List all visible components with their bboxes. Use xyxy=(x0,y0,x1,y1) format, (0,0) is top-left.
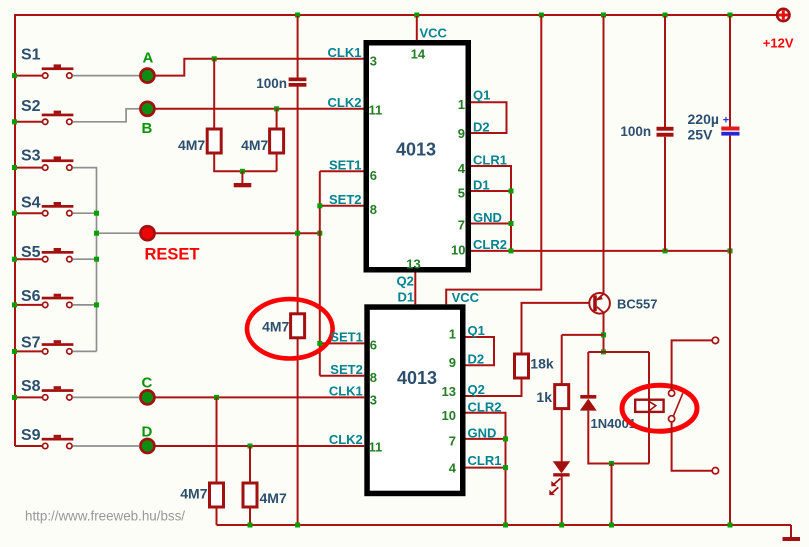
svg-text:RESET: RESET xyxy=(145,245,200,263)
junction top rail x541 xyxy=(539,13,544,18)
wire CLR2 IC1 to caps xyxy=(471,250,730,252)
wire S9 to LED D xyxy=(73,445,140,447)
junction bus RESET xyxy=(94,231,99,236)
junction rail S8 xyxy=(12,395,17,400)
junction D1 IC1 xyxy=(509,189,514,194)
svg-text:9: 9 xyxy=(449,355,456,370)
junction RESET x319 xyxy=(317,231,322,236)
wire SET2 IC2 xyxy=(320,375,365,377)
wire node A to R1 xyxy=(213,59,215,129)
svg-text:6: 6 xyxy=(370,168,377,183)
svg-text:S2: S2 xyxy=(21,98,41,115)
wire rail to C1 xyxy=(297,16,299,78)
svg-text:GND: GND xyxy=(473,210,502,225)
terminal circle lower xyxy=(712,468,718,474)
wire rail to S9 xyxy=(15,445,42,447)
junction node B resistor tap xyxy=(274,106,279,111)
junction bottom rail x505 xyxy=(503,523,508,528)
wire Q1-D2 loop IC2 xyxy=(466,337,495,365)
junction top rail x416 xyxy=(414,13,419,18)
junction rail S1 xyxy=(12,73,17,78)
svg-text:6: 6 xyxy=(370,338,377,353)
junction bus S4 xyxy=(94,211,99,216)
svg-text:4M7: 4M7 xyxy=(260,490,287,506)
resistor R3 4M7 xyxy=(210,483,224,507)
svg-text:5: 5 xyxy=(458,186,465,201)
wire rail to Q1 emitter xyxy=(603,16,605,293)
svg-text:11: 11 xyxy=(369,440,383,455)
svg-text:Q1: Q1 xyxy=(468,323,485,338)
svg-text:1: 1 xyxy=(449,327,456,342)
wire coil return to rail xyxy=(611,464,613,526)
junction bus S6 xyxy=(94,302,99,307)
wire GND IC2 xyxy=(466,438,506,440)
wire contact lower terminal xyxy=(672,422,713,471)
relay K1 coil xyxy=(635,352,663,464)
junction ground link xyxy=(240,169,245,174)
svg-text:GND: GND xyxy=(468,425,497,440)
junction bottom rail x611 xyxy=(609,523,614,528)
wire LED A to CLK1 IC1 xyxy=(155,59,363,76)
power symbol +12V xyxy=(777,9,789,21)
wire R5 to bottom rail xyxy=(297,337,299,525)
svg-text:SET1: SET1 xyxy=(329,158,362,173)
svg-text:CLR1: CLR1 xyxy=(473,152,507,167)
ground symbol mid xyxy=(234,183,252,187)
svg-text:D2: D2 xyxy=(468,351,485,366)
wire contact upper terminal xyxy=(672,340,713,390)
junction node A resistor tap xyxy=(212,56,217,61)
capacitor C2 100n xyxy=(657,127,674,137)
svg-text:Q1: Q1 xyxy=(473,88,490,103)
svg-text:VCC: VCC xyxy=(420,26,448,41)
wire S3 bus xyxy=(73,168,97,352)
svg-text:SET2: SET2 xyxy=(330,362,363,377)
wire rail to S3 xyxy=(15,167,42,169)
junction rail S4 xyxy=(12,211,17,216)
wire S6 to bus xyxy=(73,304,97,306)
junction rail S3 xyxy=(12,165,17,170)
wire S7 to bus xyxy=(73,350,97,352)
junction rail S7 xyxy=(12,349,17,354)
junction collector 1k tap xyxy=(601,332,606,337)
wire R4 to bottom rail xyxy=(249,507,251,525)
svg-text:S4: S4 xyxy=(21,195,41,212)
wire SET column xyxy=(319,171,321,375)
svg-text:D: D xyxy=(142,424,153,441)
wire R3 to bottom rail xyxy=(216,507,218,525)
LED C xyxy=(140,390,154,404)
wire R2 to ground link xyxy=(276,153,278,171)
svg-text:+: + xyxy=(723,115,729,127)
wire rail to C2 xyxy=(664,16,666,127)
junction SET1 IC2 xyxy=(317,341,322,346)
svg-text:4013: 4013 xyxy=(396,139,436,159)
wire Q1-D2 loop IC1 xyxy=(471,102,507,133)
wire rail to S4 xyxy=(15,212,42,214)
svg-text:4M7: 4M7 xyxy=(262,318,289,334)
svg-text:S7: S7 xyxy=(21,334,41,351)
resistor R2 4M7 xyxy=(270,129,284,153)
wire node D to R4 xyxy=(249,446,251,483)
svg-text:8: 8 xyxy=(370,202,377,217)
wire left switch rail xyxy=(14,14,16,446)
svg-text:13: 13 xyxy=(406,257,420,272)
svg-text:CLK2: CLK2 xyxy=(328,95,362,110)
junction GND IC1 xyxy=(509,221,514,226)
pushbutton switch S7 xyxy=(42,340,74,354)
svg-text:3: 3 xyxy=(370,54,377,69)
resistor R1 4M7 xyxy=(207,129,221,153)
junction top rail x730 xyxy=(728,13,733,18)
svg-text:1: 1 xyxy=(458,97,465,112)
svg-text:1k: 1k xyxy=(536,389,552,405)
wire LED D to CLK2 IC2 xyxy=(155,445,364,447)
wire S2 to LED B xyxy=(73,109,140,122)
svg-text:CLK1: CLK1 xyxy=(329,384,363,399)
relay K1 contact poles xyxy=(669,390,683,422)
wire bus to RESET LED xyxy=(97,232,140,234)
op IC2 4013 body xyxy=(367,307,463,493)
junction CLR2 x730 xyxy=(728,248,733,253)
svg-text:http://www.freeweb.hu/bss/: http://www.freeweb.hu/bss/ xyxy=(25,509,185,524)
svg-text:S5: S5 xyxy=(21,244,41,261)
LED A xyxy=(140,69,154,83)
svg-text:S6: S6 xyxy=(21,288,41,305)
junction coil return xyxy=(609,461,614,466)
svg-text:100n: 100n xyxy=(256,76,287,91)
junction rail S2 xyxy=(12,119,17,124)
junction CLR1 IC2 xyxy=(503,465,508,470)
op IC1 4013 body xyxy=(366,43,468,270)
svg-text:+12V: +12V xyxy=(763,36,794,51)
wire diode top xyxy=(587,352,589,395)
wire node B to R2 xyxy=(276,109,278,129)
svg-text:CLK1: CLK1 xyxy=(328,45,362,60)
svg-text:8: 8 xyxy=(370,370,377,385)
junction collector relay tap xyxy=(601,349,606,354)
wire collector to R7 xyxy=(562,335,604,385)
resistor R7 1k xyxy=(555,385,569,409)
wire Q2 IC1 to D1 IC2 xyxy=(414,273,416,305)
wire CLR2 IC2 xyxy=(466,413,506,525)
wire D1 IC1 xyxy=(471,190,511,192)
svg-text:BC557: BC557 xyxy=(617,297,657,312)
wire SET1 IC2 xyxy=(320,342,365,344)
svg-text:7: 7 xyxy=(458,218,465,233)
wire R6 to base Q1 xyxy=(522,303,590,354)
svg-text:D2: D2 xyxy=(473,120,490,135)
wire LED B to CLK2 IC1 xyxy=(155,108,363,110)
wire C1 to RESET net xyxy=(297,86,299,314)
wire R7 to LED1 xyxy=(561,409,563,462)
svg-text:SET2: SET2 xyxy=(329,192,362,207)
diode D5 1N4001 xyxy=(580,395,597,411)
wire rail to S2 xyxy=(15,121,42,123)
svg-text:S3: S3 xyxy=(21,147,41,164)
svg-text:D1: D1 xyxy=(398,289,415,304)
resistor R6 18k xyxy=(515,354,529,378)
wire rail to S1 xyxy=(15,75,42,77)
junction GND IC2 xyxy=(503,436,508,441)
svg-text:10: 10 xyxy=(442,408,456,423)
pushbutton switch S6 xyxy=(42,294,74,308)
wire collector to diode and coil xyxy=(588,351,649,353)
svg-text:CLR1: CLR1 xyxy=(468,453,502,468)
highlight ellipse around relay xyxy=(622,385,697,431)
wire Q1 collector down xyxy=(603,314,605,353)
junction top rail x297 xyxy=(295,13,300,18)
pushbutton switch S4 xyxy=(42,202,74,216)
highlight ellipse around R5 xyxy=(247,299,333,358)
LED D xyxy=(140,439,154,453)
svg-text:S1: S1 xyxy=(21,46,41,63)
pushbutton switch S2 xyxy=(42,111,74,125)
svg-text:4M7: 4M7 xyxy=(180,486,207,502)
wire CLR1 IC1 xyxy=(471,166,511,251)
junction rail S5 xyxy=(12,257,17,262)
wire SET2 IC1 xyxy=(320,205,364,207)
wire S5 to bus xyxy=(73,258,97,260)
LED1 indicator diode xyxy=(549,461,570,495)
pushbutton switch S8 xyxy=(42,386,74,400)
svg-text:11: 11 xyxy=(369,103,383,118)
svg-text:100n: 100n xyxy=(620,124,651,139)
wire ground stub xyxy=(241,171,243,183)
junction CLR2 x511 xyxy=(509,248,514,253)
junction bottom rail x561 xyxy=(559,523,564,528)
svg-text:D1: D1 xyxy=(473,177,490,192)
LED B xyxy=(140,102,154,116)
pushbutton switch S5 xyxy=(42,248,74,262)
svg-text:7: 7 xyxy=(449,433,456,448)
wire CLR1 IC2 xyxy=(466,467,506,469)
svg-text:SET1: SET1 xyxy=(330,330,363,345)
wire R1 to ground link xyxy=(214,153,276,171)
junction RESET x297 xyxy=(295,231,300,236)
svg-text:25V: 25V xyxy=(688,126,714,142)
junction bottom rail x297 xyxy=(295,523,300,528)
svg-text:4M7: 4M7 xyxy=(241,137,268,153)
LED RESET xyxy=(141,226,155,240)
svg-text:4: 4 xyxy=(449,461,457,476)
wire S8 to LED C xyxy=(73,396,140,398)
svg-text:4: 4 xyxy=(458,161,466,176)
svg-text:A: A xyxy=(143,50,154,67)
svg-text:VCC: VCC xyxy=(452,290,480,305)
wire rail to S6 xyxy=(15,304,42,306)
resistor R5 4M7 xyxy=(291,314,305,338)
wire RESET LED to SET column xyxy=(155,232,319,234)
wire Q2 IC2 to R6 xyxy=(466,378,522,397)
svg-text:CLR2: CLR2 xyxy=(468,399,502,414)
pushbutton switch S3 xyxy=(42,156,74,170)
resistor R4 4M7 xyxy=(243,483,257,507)
svg-text:3: 3 xyxy=(370,392,377,407)
junction CLR2 x665 xyxy=(663,248,668,253)
svg-text:220µ: 220µ xyxy=(688,111,719,127)
wire top VCC rail xyxy=(15,14,777,16)
svg-text:Q2: Q2 xyxy=(468,382,485,397)
junction rail S6 xyxy=(12,302,17,307)
wire node C to R3 xyxy=(216,397,218,483)
ground symbol bottom right xyxy=(783,537,801,541)
capacitor C3 220u electrolytic xyxy=(721,127,739,136)
wire rail to S7 xyxy=(15,350,42,352)
capacitor C1 100n xyxy=(289,78,307,87)
svg-text:4013: 4013 xyxy=(397,368,437,388)
wire S4 to bus xyxy=(73,212,97,214)
junction top rail x665 xyxy=(663,13,668,18)
pushbutton switch S9 xyxy=(42,435,74,449)
svg-text:B: B xyxy=(142,120,153,137)
wire diode bottom xyxy=(588,411,649,464)
svg-text:13: 13 xyxy=(442,384,456,399)
wire LED1 to bottom rail xyxy=(561,477,563,526)
wire LED C to CLK1 IC2 xyxy=(155,396,364,398)
junction bus S5 xyxy=(94,257,99,262)
wire S1 to LED A xyxy=(73,75,140,77)
wire VCC IC1 xyxy=(416,16,418,40)
junction top rail x603 xyxy=(601,13,606,18)
svg-text:S9: S9 xyxy=(21,427,41,444)
wire rail to S5 xyxy=(15,258,42,260)
svg-text:CLK2: CLK2 xyxy=(329,432,363,447)
junction node C resistor tap xyxy=(214,395,219,400)
wire GND IC1 xyxy=(471,223,511,225)
junction bottom rail x730 xyxy=(728,523,733,528)
pushbutton switch S1 xyxy=(42,64,74,78)
wire C2 to CLR2 net xyxy=(664,137,666,251)
wire rail to S8 xyxy=(15,396,42,398)
wire bottom ground rail xyxy=(217,525,792,537)
svg-text:C: C xyxy=(142,375,153,392)
svg-text:4M7: 4M7 xyxy=(178,137,205,153)
junction node D resistor tap xyxy=(248,444,253,449)
svg-text:S8: S8 xyxy=(21,378,41,395)
svg-text:9: 9 xyxy=(458,126,465,141)
svg-text:10: 10 xyxy=(451,242,465,257)
svg-text:Q2: Q2 xyxy=(397,274,414,289)
junction SET2 IC1 xyxy=(317,203,322,208)
svg-text:CLR2: CLR2 xyxy=(473,237,507,252)
svg-text:18k: 18k xyxy=(530,355,554,371)
svg-text:14: 14 xyxy=(411,47,426,62)
wire rail to C3 xyxy=(729,16,731,127)
terminal circle upper xyxy=(712,337,718,343)
transistor Q1 BC557 xyxy=(589,293,610,314)
wire rail to VCC IC2 xyxy=(446,16,541,304)
junction bottom rail R4 xyxy=(248,523,253,528)
wire SET1 IC1 xyxy=(320,170,364,172)
wire C3 to bottom rail xyxy=(729,136,731,525)
